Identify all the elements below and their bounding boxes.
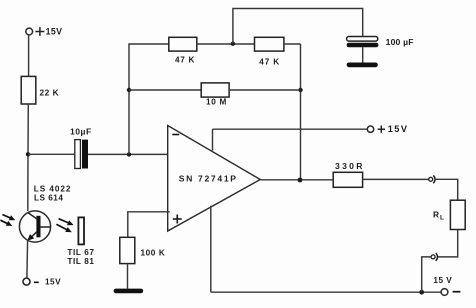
svg-text:15 V: 15 V (433, 276, 452, 285)
terminal -15V bottom right (441, 289, 448, 296)
terminal +15V top left (26, 28, 33, 35)
resistor RL (450, 200, 465, 229)
label RL (433, 209, 444, 221)
junction 10M right node (298, 88, 302, 92)
wire +15V supply line (213, 128, 368, 130)
phototransistor Q1 body (19, 211, 50, 242)
svg-text:22 K: 22 K (40, 88, 60, 98)
junction inverting input node (127, 152, 131, 156)
svg-text:TIL 67: TIL 67 (67, 248, 94, 257)
label +15V right (378, 124, 409, 134)
wire op-amp V+ pin (212, 129, 214, 150)
capacitor 100uF (347, 37, 379, 48)
svg-text:330R: 330R (335, 161, 365, 171)
label +15V top left (35, 26, 62, 36)
terminal -15V bottom left (23, 278, 30, 285)
wire emitter down to terminal (26, 240, 29, 279)
op-amp U1 SN72741P triangle (168, 126, 261, 232)
wire 100K to ground (127, 264, 129, 289)
terminal +15V right (367, 126, 373, 132)
ground below 100K (114, 289, 144, 294)
resistor 47K first (169, 37, 197, 51)
wire terminal to 22K (28, 35, 30, 76)
ground below 100uF (347, 63, 378, 68)
wire bottom rail (211, 291, 441, 293)
light arrow 1 at TIL (59, 219, 74, 226)
svg-text:10µF: 10µF (70, 126, 92, 136)
svg-text:10 M: 10 M (206, 98, 227, 107)
light arrow 1 at Q1 (2, 215, 15, 221)
wire op-amp output (260, 179, 333, 181)
svg-text:15V: 15V (388, 124, 409, 134)
op-amp minus sign (172, 134, 179, 136)
svg-text:15V: 15V (45, 278, 61, 287)
connector J1 (429, 175, 435, 183)
connector J2 (431, 253, 437, 261)
wire node to C1 (28, 153, 75, 155)
phototransistor base lead (40, 226, 50, 228)
resistor 22K (21, 76, 36, 104)
wire 22K to collector node (27, 104, 30, 211)
wire mid junction up and over to 100uF (233, 9, 363, 44)
svg-text:L: L (440, 215, 444, 222)
resistor 10M (201, 83, 229, 97)
wire 47K1 right to mid junction (197, 43, 255, 45)
svg-text:LS 4022: LS 4022 (34, 185, 72, 194)
wire 330R to connector J1 (363, 178, 429, 180)
resistor 47K second (255, 37, 284, 51)
junction collector/coupling node (26, 152, 30, 156)
wire non-inverting input to 100K (128, 212, 170, 238)
junction bottom rail / load return (419, 290, 424, 295)
wire J2 to bottom rail (422, 257, 431, 292)
junction between 47K resistors (231, 42, 235, 46)
svg-text:R: R (433, 209, 439, 219)
svg-text:TIL 81: TIL 81 (67, 257, 94, 266)
resistor 330R (333, 172, 362, 187)
svg-text:100 K: 100 K (141, 249, 166, 258)
wire C1 to inverting input (88, 153, 168, 155)
phototransistor base bar (36, 216, 40, 238)
resistor 100K (120, 237, 135, 263)
minus dash bottom right (453, 291, 461, 293)
wire 47K2 right to right rail (284, 43, 301, 45)
svg-text:47 K: 47 K (175, 56, 195, 65)
phototransistor emitter lead (30, 232, 36, 238)
phototransistor emitter arrowhead (27, 234, 34, 241)
minus dash bottom left (34, 281, 39, 283)
wire 10M left lead (129, 89, 201, 91)
wire J1 to RL (435, 179, 458, 200)
photodetector TIL slab (78, 217, 84, 244)
svg-text:100 µF: 100 µF (386, 37, 414, 47)
svg-text:SN 72741P: SN 72741P (179, 174, 238, 184)
svg-text:47 K: 47 K (259, 58, 280, 67)
junction 10M left node (127, 88, 131, 92)
phototransistor collector lead (28, 213, 37, 220)
light arrow 2 at Q1 (0, 220, 12, 226)
wire RL to connector J2 (438, 230, 458, 257)
capacitor 10uF (75, 140, 88, 169)
wire op-amp V- pin (210, 206, 212, 292)
junction output node (298, 178, 303, 183)
svg-text:LS 614: LS 614 (34, 194, 63, 203)
light arrow 2 at TIL (56, 224, 71, 232)
wire right feedback rail (300, 44, 302, 180)
op-amp plus sign (173, 215, 182, 224)
wire 10M right lead (229, 89, 300, 91)
wire left feedback rail (129, 44, 169, 154)
wire 100uF stem (362, 47, 364, 62)
svg-text:15V: 15V (46, 26, 63, 36)
